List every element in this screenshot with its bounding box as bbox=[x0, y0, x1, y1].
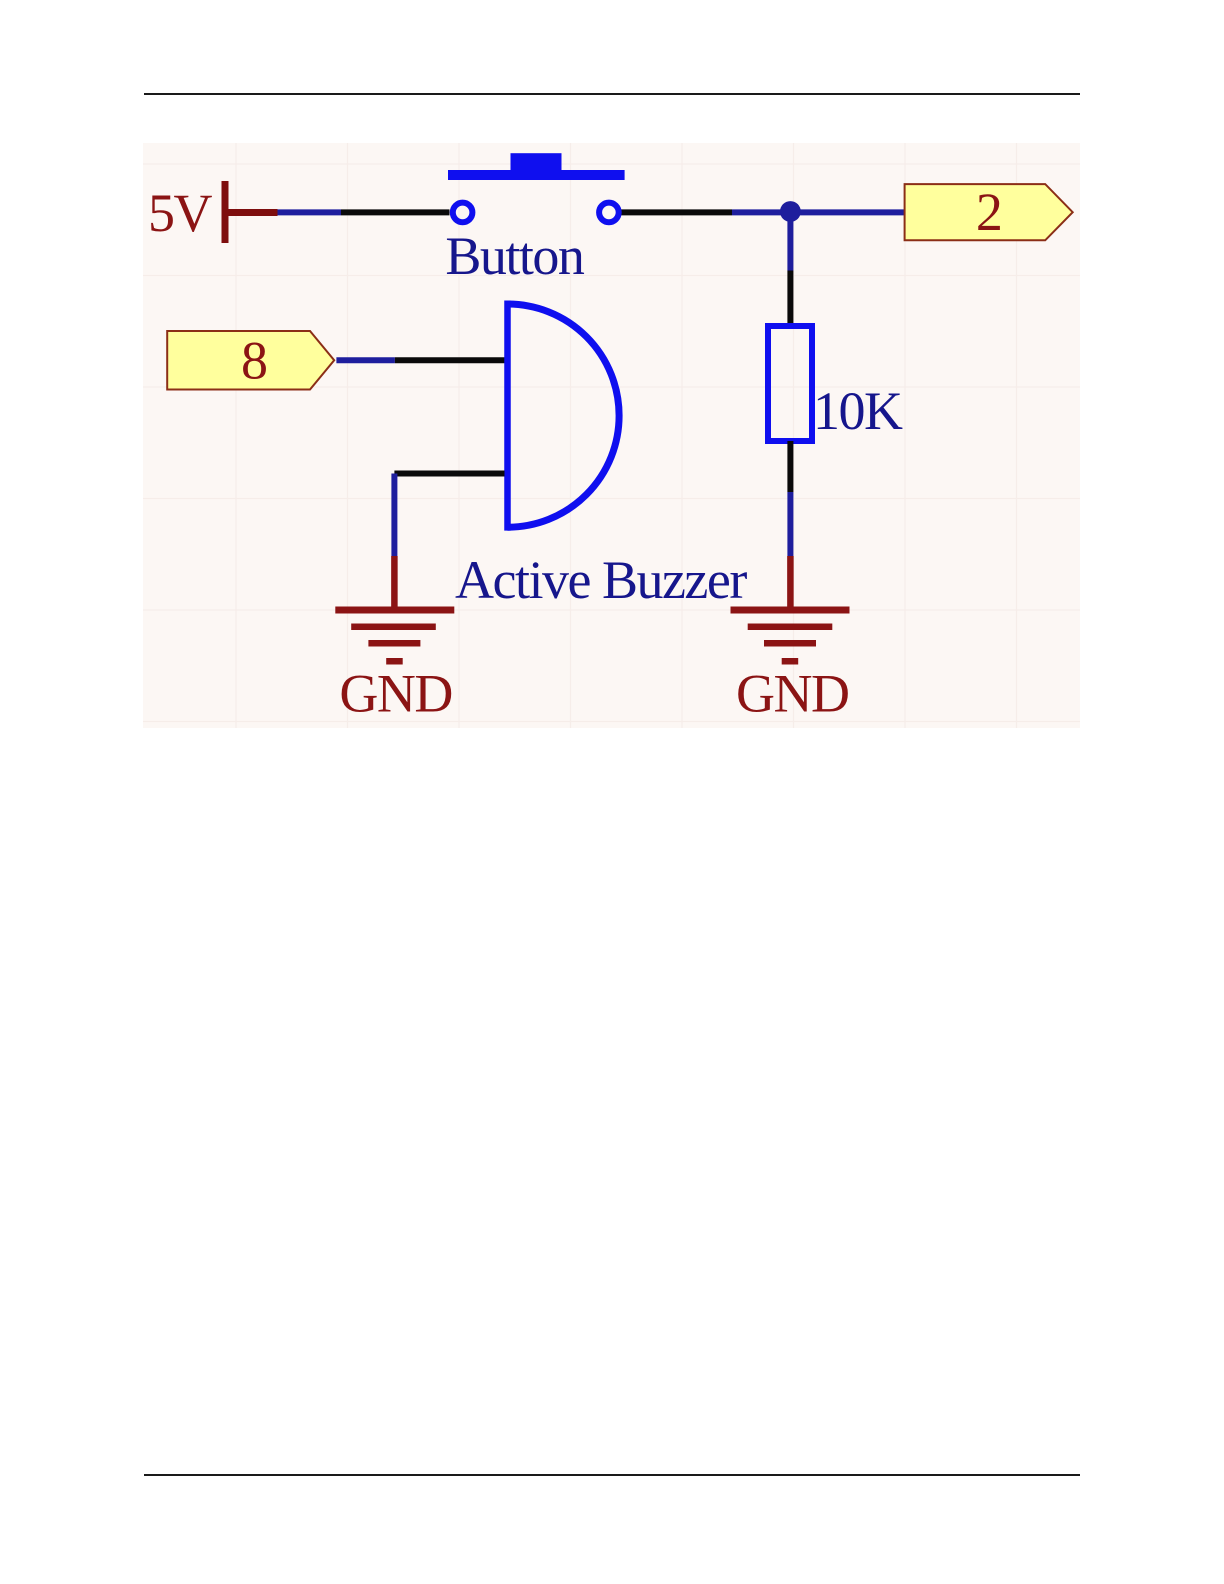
svg-text:Button: Button bbox=[445, 226, 585, 286]
svg-text:5V: 5V bbox=[148, 183, 213, 243]
svg-text:Active Buzzer: Active Buzzer bbox=[455, 550, 747, 610]
svg-text:GND: GND bbox=[736, 663, 849, 723]
svg-text:GND: GND bbox=[339, 663, 452, 723]
svg-text:10K: 10K bbox=[813, 381, 903, 441]
svg-text:8: 8 bbox=[241, 331, 267, 391]
svg-text:2: 2 bbox=[976, 182, 1002, 242]
